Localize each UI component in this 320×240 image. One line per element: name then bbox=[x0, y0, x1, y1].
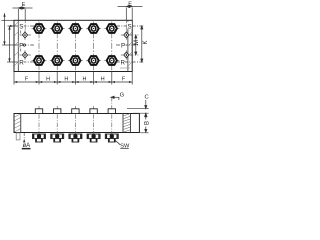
bottom hex fitting col5 bbox=[105, 134, 118, 142]
dimension K (port S to R spacing) bbox=[141, 26, 143, 62]
left end-cap joint line bbox=[17, 20, 19, 71]
labels F H H H H F bbox=[25, 77, 126, 83]
small gauge hole on P line bbox=[23, 44, 25, 46]
hex plug port row2 col4 bbox=[89, 56, 99, 65]
hidden port thread dashes (left end face) bbox=[20, 31, 22, 52]
dimension E (right, mounting hole to end face) bbox=[118, 5, 143, 20]
bottom hex fitting col3 bbox=[69, 134, 82, 142]
dimension row F H H H H F: arrowheads bbox=[14, 81, 132, 83]
station centerline col 1 bbox=[38, 22, 40, 71]
station centerline col 4 bbox=[93, 22, 95, 71]
hex plug port row2 col2 bbox=[52, 56, 62, 65]
svg-text:M: M bbox=[134, 40, 140, 45]
svg-text:K: K bbox=[143, 40, 149, 44]
right end-cap hatch bbox=[128, 22, 132, 66]
label R (right) bbox=[120, 58, 125, 65]
label P (right) bbox=[120, 41, 125, 48]
G leader line bbox=[111, 96, 119, 100]
horizontal centerlines of port rows bbox=[32, 29, 120, 61]
label R (left) bbox=[19, 58, 24, 65]
hex plug port row1 col3 bbox=[70, 24, 80, 33]
extension of upper mounting-hole centerline to dimension M bbox=[130, 34, 139, 36]
right end-cap joint line bbox=[127, 20, 129, 71]
col5 centerline extension up to G leader bbox=[111, 98, 113, 107]
left margin chain dimension arrows bbox=[3, 13, 13, 62]
left margin chain dimension lines bbox=[2, 13, 15, 62]
svg-text:E: E bbox=[22, 2, 26, 8]
right end-cap joint lines (side view) bbox=[122, 114, 124, 133]
hex plug port row2 col3 bbox=[70, 56, 80, 65]
bottom hex fitting col2 bbox=[51, 134, 64, 142]
top boss col1 bbox=[35, 109, 42, 114]
svg-text:H: H bbox=[46, 77, 50, 83]
dimension row F H H H H F: extension lines bbox=[14, 72, 132, 85]
top boss col3 bbox=[72, 109, 79, 114]
A leader arrow bbox=[23, 139, 25, 142]
svg-text:R: R bbox=[19, 59, 24, 66]
bottom hex fitting col1 bbox=[33, 134, 46, 142]
hex plug port row2 col5 bbox=[107, 56, 117, 65]
faint recess line near right end bbox=[120, 67, 130, 69]
station centerline col 2 bbox=[56, 22, 58, 71]
svg-text:P: P bbox=[19, 42, 23, 49]
svg-text:S: S bbox=[19, 23, 23, 30]
svg-text:B: B bbox=[144, 121, 150, 125]
left end bottom plug bbox=[16, 133, 20, 140]
label P (left) bbox=[19, 41, 24, 48]
extension of lower mounting-hole centerline to dimension M bbox=[130, 54, 139, 56]
hex plug port row1 col1 bbox=[34, 24, 44, 33]
top boss col5 bbox=[108, 109, 115, 114]
dimension C (boss height) bbox=[127, 100, 149, 118]
port S centerline (left) bbox=[15, 25, 35, 27]
mounting hole right lower bbox=[121, 50, 133, 59]
svg-text:H: H bbox=[83, 77, 87, 83]
dimension B (block height) bbox=[140, 114, 149, 133]
right end-cap section hatch bbox=[123, 114, 130, 133]
mounting hole left upper bbox=[20, 30, 32, 39]
svg-text:H: H bbox=[101, 77, 105, 83]
label B bbox=[143, 120, 150, 127]
mounting hole left lower bbox=[20, 50, 32, 59]
underline of SW bbox=[120, 147, 129, 149]
svg-text:H: H bbox=[64, 77, 68, 83]
bottom hex fitting col4 bbox=[87, 134, 100, 142]
hex plug port row2 col1 bbox=[34, 56, 44, 65]
manifold block body (top view) bbox=[14, 20, 132, 71]
label S (right) bbox=[127, 22, 132, 29]
mounting hole centerline up (left) bbox=[24, 20, 26, 31]
svg-text:S: S bbox=[128, 23, 132, 30]
dimension E (left, end face to mounting hole) bbox=[13, 7, 33, 20]
station centerline col 5 bbox=[111, 22, 113, 71]
svg-text:G: G bbox=[120, 92, 125, 98]
hex plug port row1 col2 bbox=[52, 24, 62, 33]
port P centerline (right) bbox=[116, 44, 139, 46]
port R centerline (right) bbox=[116, 61, 143, 63]
hex plug port row1 col4 bbox=[89, 24, 99, 33]
hex plug port row1 col5 bbox=[107, 24, 117, 33]
side view station centerlines bbox=[39, 106, 112, 143]
port P centerline (left) bbox=[15, 44, 35, 46]
top boss col2 bbox=[54, 109, 61, 114]
left end-cap hatch bbox=[14, 22, 18, 66]
svg-text:R: R bbox=[121, 59, 126, 66]
SW leader line bbox=[115, 140, 121, 145]
svg-text:P: P bbox=[121, 42, 125, 49]
dimension M (mounting hole spacing) bbox=[135, 35, 137, 55]
port R centerline (left) bbox=[15, 61, 35, 63]
top boss col4 bbox=[90, 109, 97, 114]
mounting hole right upper bbox=[121, 30, 133, 39]
mounting hole centerline up (right) bbox=[125, 20, 127, 31]
station centerline col 3 bbox=[74, 22, 76, 71]
side view block body bbox=[14, 114, 139, 133]
label S (left) bbox=[19, 22, 24, 29]
mounting hole hidden centerline (side view) bbox=[23, 133, 25, 141]
svg-text:E: E bbox=[128, 2, 132, 8]
svg-text:C: C bbox=[145, 95, 149, 101]
left end-cap section hatch bbox=[14, 114, 20, 132]
left end-cap joint line (side view) bbox=[20, 114, 22, 133]
port S centerline (right) bbox=[116, 25, 143, 27]
underline bar of øA bbox=[22, 148, 31, 150]
